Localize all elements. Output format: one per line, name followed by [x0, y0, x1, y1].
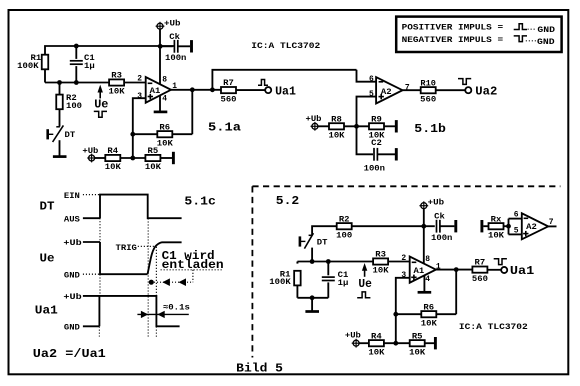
- svg-text:10K: 10K: [145, 162, 162, 172]
- svg-text:2: 2: [137, 74, 142, 84]
- svg-text:GND: GND: [64, 270, 80, 280]
- svg-text:Bild 5: Bild 5: [236, 361, 283, 375]
- svg-text:GND: GND: [64, 323, 80, 333]
- svg-text:Rx: Rx: [491, 214, 502, 224]
- svg-text:Ck: Ck: [434, 211, 445, 221]
- svg-text:10K: 10K: [488, 230, 505, 240]
- svg-text:1μ: 1μ: [84, 61, 95, 71]
- svg-text:A1: A1: [150, 86, 161, 96]
- svg-text:R6: R6: [423, 302, 434, 312]
- svg-text:Ua1: Ua1: [35, 304, 58, 318]
- svg-text:7: 7: [549, 217, 554, 227]
- svg-text:R10: R10: [420, 78, 436, 88]
- svg-text:C2: C2: [371, 138, 382, 148]
- svg-text:100n: 100n: [431, 233, 452, 243]
- svg-text:5.1c: 5.1c: [184, 195, 216, 209]
- svg-text:+Ub: +Ub: [345, 331, 361, 341]
- svg-text:10K: 10K: [328, 131, 345, 141]
- svg-text:A2: A2: [381, 87, 392, 97]
- svg-text:EIN: EIN: [64, 191, 80, 201]
- svg-text:3: 3: [137, 91, 142, 101]
- svg-text:+Ub: +Ub: [306, 114, 322, 124]
- svg-text:4: 4: [425, 274, 430, 284]
- svg-text:GND: GND: [537, 25, 555, 35]
- svg-text:+Ub: +Ub: [428, 198, 445, 208]
- svg-text:NEGATIVER IMPULS =: NEGATIVER IMPULS =: [402, 35, 504, 45]
- svg-text:A2: A2: [526, 222, 537, 232]
- svg-text:R7: R7: [475, 258, 486, 268]
- svg-text:Ue: Ue: [94, 97, 108, 111]
- svg-text:5: 5: [514, 226, 519, 236]
- svg-text:5.2: 5.2: [276, 194, 299, 208]
- svg-text:entladen: entladen: [162, 258, 224, 272]
- svg-text:5.1b: 5.1b: [414, 122, 446, 136]
- svg-text:AUS: AUS: [64, 214, 80, 224]
- svg-text:10K: 10K: [157, 138, 174, 148]
- svg-text:100n: 100n: [165, 53, 186, 63]
- svg-text:560: 560: [472, 274, 488, 284]
- svg-text:+Ub: +Ub: [82, 146, 98, 156]
- svg-text:R8: R8: [331, 114, 342, 124]
- svg-text:100K: 100K: [17, 61, 39, 71]
- svg-text:100K: 100K: [269, 277, 291, 287]
- svg-text:R6: R6: [159, 122, 170, 132]
- svg-text:R5: R5: [148, 146, 159, 156]
- svg-text:Ue: Ue: [40, 252, 55, 266]
- svg-text:+Ub: +Ub: [164, 18, 181, 28]
- svg-text:TRIG: TRIG: [116, 243, 137, 253]
- svg-text:8: 8: [162, 75, 167, 85]
- svg-text:R4: R4: [371, 331, 382, 341]
- svg-text:≈0.1s: ≈0.1s: [163, 303, 190, 313]
- svg-text:R9: R9: [371, 114, 382, 124]
- svg-text:R3: R3: [375, 250, 386, 260]
- svg-text:IC:A TLC3702: IC:A TLC3702: [251, 41, 320, 51]
- svg-text:10K: 10K: [373, 266, 390, 276]
- svg-text:100: 100: [336, 230, 352, 240]
- svg-text:GND: GND: [537, 37, 555, 47]
- svg-text:5.1a: 5.1a: [208, 120, 241, 134]
- svg-text:R4: R4: [107, 146, 118, 156]
- svg-text:DT: DT: [317, 237, 328, 247]
- svg-text:DT: DT: [65, 130, 76, 140]
- svg-text:10K: 10K: [109, 87, 126, 97]
- svg-text:2: 2: [401, 253, 406, 263]
- svg-text:Ck: Ck: [169, 32, 180, 42]
- svg-text:4: 4: [162, 94, 167, 104]
- svg-text:POSITIVER IMPULS =: POSITIVER IMPULS =: [402, 23, 504, 33]
- svg-text:A1: A1: [414, 266, 425, 276]
- svg-text:560: 560: [220, 94, 236, 104]
- svg-text:IC:A TLC3702: IC:A TLC3702: [459, 322, 528, 332]
- svg-text:R5: R5: [412, 331, 423, 341]
- svg-text:Ua1: Ua1: [275, 84, 296, 98]
- svg-text:R3: R3: [111, 71, 122, 81]
- svg-text:Ua2: Ua2: [475, 84, 497, 98]
- svg-text:R7: R7: [223, 78, 234, 88]
- svg-text:1μ: 1μ: [338, 278, 349, 288]
- svg-text:10K: 10K: [368, 347, 385, 357]
- svg-text:6: 6: [369, 74, 374, 84]
- svg-text:100n: 100n: [364, 164, 385, 174]
- svg-text:8: 8: [425, 254, 430, 264]
- svg-text:10K: 10K: [105, 162, 122, 172]
- svg-text:+Ub: +Ub: [63, 238, 81, 248]
- svg-text:+Ub: +Ub: [63, 292, 81, 302]
- svg-text:10K: 10K: [421, 318, 438, 328]
- svg-text:Ua1: Ua1: [510, 264, 534, 278]
- svg-text:560: 560: [420, 94, 436, 104]
- svg-text:R2: R2: [339, 214, 350, 224]
- svg-text:DT: DT: [40, 199, 55, 213]
- svg-text:10K: 10K: [409, 347, 426, 357]
- svg-text:100: 100: [66, 101, 82, 111]
- svg-text:6: 6: [514, 210, 519, 220]
- svg-text:Ue: Ue: [358, 277, 372, 291]
- svg-text:Ua2 =/Ua1: Ua2 =/Ua1: [33, 347, 106, 361]
